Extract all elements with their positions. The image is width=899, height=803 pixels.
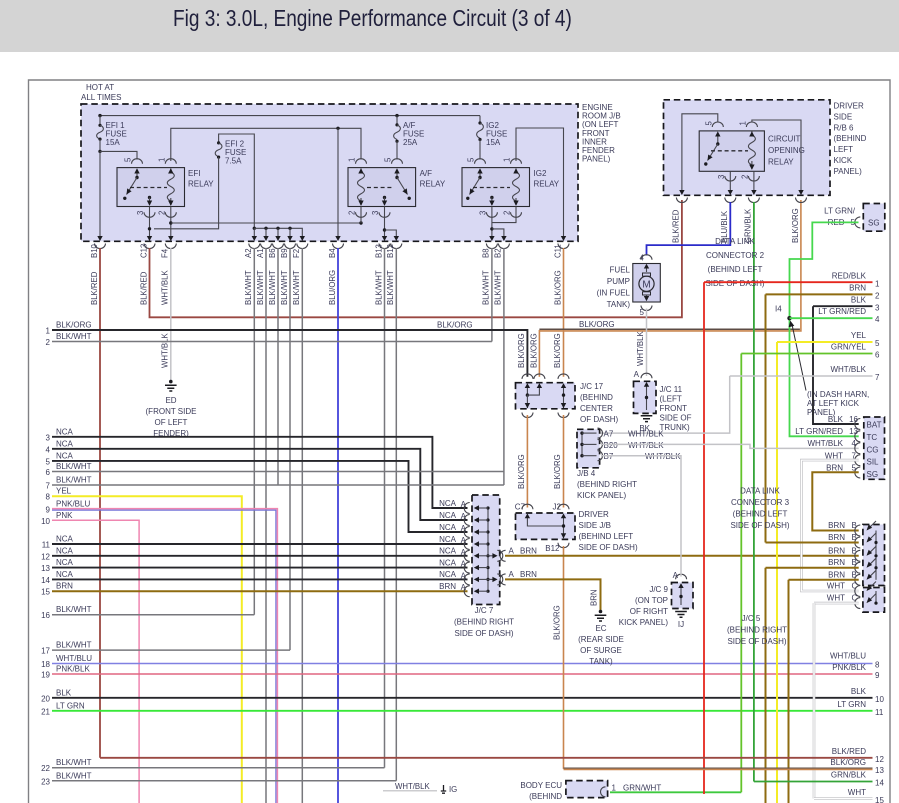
svg-text:8: 8 xyxy=(875,661,880,670)
svg-text:BLK: BLK xyxy=(828,415,844,424)
node pin 7 left BLK/WHT xyxy=(46,476,504,491)
svg-text:SG: SG xyxy=(868,219,880,228)
ground BK below J/C 11 xyxy=(639,416,652,433)
svg-text:SIDE OF DASH): SIDE OF DASH) xyxy=(454,629,513,638)
svg-text:C: C xyxy=(852,594,858,603)
node right pin 12 BLK/RED xyxy=(100,747,884,764)
wire BLK/RED B10 down to right pin 12 xyxy=(99,248,101,758)
svg-text:WHT/BLK: WHT/BLK xyxy=(830,365,866,374)
node right pin 1 RED/BLK xyxy=(704,272,880,289)
svg-text:NCA: NCA xyxy=(56,451,74,460)
svg-text:BLK/WHT: BLK/WHT xyxy=(56,476,92,485)
svg-text:RELAY: RELAY xyxy=(768,158,794,167)
svg-text:C7: C7 xyxy=(515,503,526,512)
wire A/F pin3 to B13 B12 exits xyxy=(383,207,397,237)
svg-text:EFI: EFI xyxy=(188,169,200,178)
svg-text:BLK/WHT: BLK/WHT xyxy=(268,270,277,305)
svg-text:1: 1 xyxy=(738,121,747,125)
svg-text:F4: F4 xyxy=(161,248,170,258)
svg-text:YEL: YEL xyxy=(851,331,867,340)
relay circuit opening xyxy=(699,121,805,182)
svg-text:B: B xyxy=(852,558,857,567)
svg-text:CONNECTOR 3: CONNECTOR 3 xyxy=(731,498,790,507)
relay EFI xyxy=(117,157,214,217)
connector pin A1 xyxy=(256,236,272,305)
svg-text:3: 3 xyxy=(136,211,145,215)
wire R/B6 internal relay pin1 to BLK/ORG exit xyxy=(752,120,801,191)
wire WHT DLC3 SIL to J/C5 WHT row1 xyxy=(801,460,858,591)
svg-text:6: 6 xyxy=(46,468,51,477)
label J/C 5 xyxy=(727,614,787,646)
svg-text:DATA LINK: DATA LINK xyxy=(715,237,755,246)
svg-text:B13: B13 xyxy=(374,244,383,258)
J/C 5 WHT row1 xyxy=(827,582,876,597)
svg-text:NCA: NCA xyxy=(439,511,457,520)
svg-text:(BEHIND LEFT: (BEHIND LEFT xyxy=(733,510,788,519)
wire GRN/BLK R/B6 down to right pin 14 xyxy=(753,202,755,782)
svg-text:SIDE: SIDE xyxy=(834,112,853,121)
J/C 5 row3 BRN xyxy=(828,546,876,561)
svg-text:BRN: BRN xyxy=(828,546,845,555)
svg-text:16: 16 xyxy=(41,611,50,620)
svg-text:B20: B20 xyxy=(604,441,619,450)
wire BLK/WHT B2 down to pin 7 xyxy=(503,248,505,485)
svg-text:7: 7 xyxy=(875,373,880,382)
node pin 18 left WHT/BLU full line to right pin 8 xyxy=(41,652,880,670)
driver side R/B 6 block xyxy=(664,100,867,196)
wire GRN/WHT body ECU to GRN/YEL column xyxy=(610,791,741,793)
wire BRN J/C7 row5 to J/C5 row3 xyxy=(505,555,859,557)
data link connector 3 xyxy=(730,415,884,530)
svg-text:2: 2 xyxy=(46,338,51,347)
fuel pump xyxy=(597,254,661,318)
junction driver side J/B xyxy=(515,503,638,554)
svg-text:J/C 9: J/C 9 xyxy=(649,585,668,594)
svg-text:GRN/BLK: GRN/BLK xyxy=(831,771,867,780)
svg-text:DRIVER: DRIVER xyxy=(579,510,609,519)
svg-text:(BEHIND LEFT: (BEHIND LEFT xyxy=(579,532,634,541)
wire YEL pin5 down off page xyxy=(776,342,778,803)
svg-text:BRN: BRN xyxy=(828,558,845,567)
svg-text:BLU/ORG: BLU/ORG xyxy=(328,270,337,305)
node pin 9 left PNK/BLU xyxy=(46,500,278,803)
svg-text:5: 5 xyxy=(852,464,857,473)
svg-text:(BEHIND: (BEHIND xyxy=(834,134,867,143)
data link connector 2 xyxy=(705,204,884,289)
svg-text:9: 9 xyxy=(46,506,51,515)
wire EFI pin3 to C13 exit and EFI2 fuse xyxy=(148,207,151,237)
wire BLK/WHT A1 down off page xyxy=(265,248,267,803)
svg-text:WHT: WHT xyxy=(827,594,845,603)
connector pin A2 xyxy=(244,236,260,305)
svg-text:BLK/ORG: BLK/ORG xyxy=(437,321,473,330)
svg-text:BLK/WHT: BLK/WHT xyxy=(56,332,92,341)
svg-text:BLK/ORG: BLK/ORG xyxy=(830,758,866,767)
svg-text:12: 12 xyxy=(875,755,884,764)
svg-text:J/C 7: J/C 7 xyxy=(475,606,494,615)
svg-text:5: 5 xyxy=(384,157,393,162)
svg-text:1: 1 xyxy=(875,280,880,289)
svg-text:DRIVER: DRIVER xyxy=(834,102,864,111)
svg-text:OPENING: OPENING xyxy=(768,146,805,155)
svg-text:18: 18 xyxy=(41,660,50,669)
node pin 2 left BLK/WHT xyxy=(46,332,492,347)
connector exit BLU/BLK at R/B6 xyxy=(720,190,736,243)
wire BLU/ORG B4 down off page xyxy=(337,248,339,803)
svg-text:3: 3 xyxy=(371,211,380,215)
wire EFI1 fuse to EFI relay pin5 xyxy=(98,150,137,160)
junction J/C 17 xyxy=(516,374,619,424)
svg-text:AT LEFT KICK: AT LEFT KICK xyxy=(807,399,860,408)
wire R/B6 internal BLK/RED feed to relay pin5 xyxy=(682,114,718,191)
svg-text:F2: F2 xyxy=(292,249,301,258)
stub WHT/BLK IG cut off at bottom xyxy=(383,782,457,794)
svg-text:LT GRN/RED: LT GRN/RED xyxy=(818,307,866,316)
wire WHT/BLK J/B4 B7 to J/C9 xyxy=(601,456,681,577)
wire IG2 pin2 to pin3 column xyxy=(492,207,516,223)
svg-text:15A: 15A xyxy=(486,138,501,147)
svg-text:BLK: BLK xyxy=(56,688,72,697)
wire BLK/WHT B8 down to pin 2 xyxy=(491,248,493,342)
wire BLK/ORG J/C17 pin3 down to driver side J/B J2 xyxy=(553,415,564,508)
svg-text:4: 4 xyxy=(875,315,880,324)
svg-text:BLK/WHT: BLK/WHT xyxy=(56,605,92,614)
connector pin B10 xyxy=(90,236,106,305)
svg-text:OF DASH): OF DASH) xyxy=(580,415,619,424)
svg-text:NCA: NCA xyxy=(439,570,457,579)
node pin 11 left NCA xyxy=(42,535,468,550)
svg-text:3: 3 xyxy=(875,303,880,312)
svg-text:9: 9 xyxy=(875,671,880,680)
svg-text:20: 20 xyxy=(41,694,50,703)
wire BLK/WHT B9 down to pin 17 xyxy=(289,248,291,650)
connector pin B13 xyxy=(374,236,390,305)
svg-text:SIDE OF: SIDE OF xyxy=(660,414,692,423)
svg-text:J2: J2 xyxy=(553,503,562,512)
svg-text:BLK/WHT: BLK/WHT xyxy=(494,270,503,305)
wire BRN DLC3 SG to J/C5 row1 xyxy=(812,472,858,530)
svg-text:C11: C11 xyxy=(553,244,562,258)
connector exit BLK/RED at R/B6 xyxy=(672,190,688,243)
connector pin C11 xyxy=(553,236,569,305)
svg-text:6: 6 xyxy=(875,351,880,360)
wire BLU/BLK R/B6 to fuel pump pin4 xyxy=(647,202,731,256)
J/C 5 row4 BRN xyxy=(766,558,877,573)
svg-text:WHT: WHT xyxy=(827,582,845,591)
wire EFI pin2 to F4 exit and coil return bus xyxy=(169,207,363,237)
svg-text:BRN: BRN xyxy=(520,547,537,556)
svg-text:2: 2 xyxy=(875,292,880,301)
svg-text:5: 5 xyxy=(467,157,476,162)
callout arrow IN DASH HARN xyxy=(789,321,870,417)
svg-text:LT GRN/: LT GRN/ xyxy=(824,207,856,216)
wire BRN J/C5 row4 down off page xyxy=(765,568,767,803)
node pin 21 left LT GRN full line to right pin 11 xyxy=(41,700,884,717)
svg-text:BLK/WHT: BLK/WHT xyxy=(56,462,92,471)
svg-text:FUEL: FUEL xyxy=(610,266,631,275)
svg-text:BLK/WHT: BLK/WHT xyxy=(56,771,92,780)
svg-text:3: 3 xyxy=(717,175,726,179)
svg-text:BLK/ORG: BLK/ORG xyxy=(529,333,538,368)
node pin 15 left BRN xyxy=(41,582,467,597)
wire RED/BLK down off page xyxy=(703,282,705,794)
node right pin 2 BRN xyxy=(766,284,881,301)
svg-text:WHT/BLK: WHT/BLK xyxy=(807,439,843,448)
J/C 7 right exit row 7 xyxy=(488,570,537,585)
svg-text:2: 2 xyxy=(740,175,749,179)
svg-text:BRN: BRN xyxy=(56,582,73,591)
svg-text:(ON TOP: (ON TOP xyxy=(635,596,668,605)
svg-text:12: 12 xyxy=(41,552,50,561)
svg-text:B7: B7 xyxy=(604,452,614,461)
svg-text:BLK/WHT: BLK/WHT xyxy=(482,270,491,305)
svg-text:(BEHIND: (BEHIND xyxy=(580,393,613,402)
wire BRN J/C7 row7 to EC ground xyxy=(505,579,601,610)
svg-text:BRN: BRN xyxy=(826,464,843,473)
svg-text:LEFT: LEFT xyxy=(834,145,854,154)
J/C 7 right exit row 5 xyxy=(488,547,537,562)
wire top bus xyxy=(98,114,480,117)
wire WHT/BLK pin7 to J/B4 A7 xyxy=(600,376,730,433)
svg-text:10: 10 xyxy=(41,517,50,526)
svg-text:2: 2 xyxy=(348,211,357,215)
svg-text:SIDE OF DASH): SIDE OF DASH) xyxy=(705,279,764,288)
svg-text:BLK: BLK xyxy=(851,687,867,696)
svg-text:22: 22 xyxy=(41,764,50,773)
svg-text:17: 17 xyxy=(41,647,50,656)
svg-text:(FRONT SIDE: (FRONT SIDE xyxy=(146,407,197,416)
svg-text:3: 3 xyxy=(478,211,487,215)
connector pin B9 xyxy=(280,236,296,305)
wire BLK/ORG J/C17 pin1 down to driver side J/B C7 xyxy=(517,415,527,508)
svg-text:WHT: WHT xyxy=(848,788,866,797)
wire R/B6 internal relay pin3 pin2 to exits xyxy=(730,171,754,190)
svg-text:BRN: BRN xyxy=(828,521,845,530)
svg-text:NCA: NCA xyxy=(56,570,74,579)
wire BLK/ORG J/C17 pin2 to R/B6 xyxy=(529,200,801,377)
svg-text:7: 7 xyxy=(46,482,51,491)
svg-text:BLK/WHT: BLK/WHT xyxy=(244,270,253,305)
svg-text:BLK/ORG: BLK/ORG xyxy=(56,321,92,330)
wire WHT J/C5 row2 down to right pin 15 xyxy=(813,603,816,798)
svg-text:(IN FUEL: (IN FUEL xyxy=(597,289,631,298)
svg-text:BLK/RED: BLK/RED xyxy=(672,209,681,243)
svg-text:A2: A2 xyxy=(244,248,253,258)
svg-text:BLK/WHT: BLK/WHT xyxy=(292,270,301,305)
wire EFI2 fuse distribution bus to A2 A1 B6 B9 F2 xyxy=(253,227,303,237)
node pin 16 left BLK/WHT xyxy=(41,605,254,620)
connector pin F4 xyxy=(161,236,177,305)
svg-text:5: 5 xyxy=(124,157,133,162)
J/C 5 row1 BRN xyxy=(828,521,876,536)
svg-text:IG2: IG2 xyxy=(534,169,547,178)
svg-text:A1: A1 xyxy=(256,248,265,258)
svg-text:NCA: NCA xyxy=(439,547,457,556)
wire EFI1 fuse to B10 exit xyxy=(99,151,101,236)
svg-text:B: B xyxy=(852,570,857,579)
wire EFI pin1 coil feed bus to A/F pin1 xyxy=(171,127,361,161)
svg-text:BLK/WHT: BLK/WHT xyxy=(256,270,265,305)
connector pin B12 xyxy=(386,236,402,305)
junction J/C 5 xyxy=(863,525,885,613)
svg-text:PNK/BLK: PNK/BLK xyxy=(56,665,90,674)
svg-text:1: 1 xyxy=(46,327,51,336)
wire BLK/ORG B12 down to right pin 13 xyxy=(553,546,564,769)
svg-text:PUMP: PUMP xyxy=(607,277,630,286)
node pin 20 left BLK full line to right pin 10 xyxy=(41,687,884,704)
node pin 3 left NCA xyxy=(46,427,468,508)
junction block J/B 4 xyxy=(577,428,681,500)
svg-text:BRN: BRN xyxy=(849,284,866,293)
svg-text:IJ: IJ xyxy=(678,620,684,629)
svg-text:BLK/ORG: BLK/ORG xyxy=(517,333,526,368)
svg-text:BLK/ORG: BLK/ORG xyxy=(553,270,562,305)
connector pin B6 xyxy=(268,236,284,305)
engine room J/B block xyxy=(81,83,621,241)
connector pin B8 xyxy=(482,236,498,305)
ground EC xyxy=(578,610,624,666)
svg-text:B: B xyxy=(852,521,857,530)
svg-text:NCA: NCA xyxy=(56,427,74,436)
ground ED xyxy=(146,380,197,438)
svg-text:BODY ECU: BODY ECU xyxy=(520,781,562,790)
J/C 5 WHT row2 xyxy=(814,594,876,609)
svg-text:4: 4 xyxy=(852,439,857,448)
connector pin B2 xyxy=(494,236,510,305)
wire A/F pin2 to return bus xyxy=(360,207,362,224)
junction J/C 7 xyxy=(472,495,500,605)
svg-text:BRN: BRN xyxy=(828,570,845,579)
svg-text:NCA: NCA xyxy=(439,499,457,508)
svg-text:BLK/ORG: BLK/ORG xyxy=(553,605,562,640)
svg-text:RED/BLK: RED/BLK xyxy=(832,272,867,281)
svg-text:2: 2 xyxy=(503,211,512,215)
wire B4 branch xyxy=(337,128,339,236)
svg-text:7.5A: 7.5A xyxy=(225,157,242,166)
svg-text:BLK/ORG: BLK/ORG xyxy=(553,454,562,489)
wire BRN pin2 down to J/C5 row2 xyxy=(765,294,767,542)
wire IG2 pin3 to B8 B2 exits xyxy=(490,207,504,237)
svg-text:WHT/BLK: WHT/BLK xyxy=(645,452,681,461)
svg-text:TANK): TANK) xyxy=(589,657,613,666)
wire BLK/WHT F2 down off page xyxy=(301,248,303,803)
svg-text:SIDE OF DASH): SIDE OF DASH) xyxy=(727,637,786,646)
svg-text:WHT/BLK: WHT/BLK xyxy=(161,270,170,305)
svg-text:13: 13 xyxy=(875,766,884,775)
svg-text:I4: I4 xyxy=(775,305,782,314)
node right pin 14 GRN/BLK xyxy=(754,771,885,788)
svg-text:BLK/WHT: BLK/WHT xyxy=(280,270,289,305)
svg-text:15: 15 xyxy=(875,796,884,803)
svg-text:BLK/RED: BLK/RED xyxy=(139,271,148,305)
svg-text:OF SURGE: OF SURGE xyxy=(580,646,622,655)
svg-text:(BEHIND RIGHT: (BEHIND RIGHT xyxy=(454,618,514,627)
svg-text:NCA: NCA xyxy=(439,558,457,567)
svg-text:LT GRN: LT GRN xyxy=(56,701,85,710)
svg-text:BLK/WHT: BLK/WHT xyxy=(386,270,395,305)
svg-text:WHT/BLK: WHT/BLK xyxy=(628,441,664,450)
svg-text:(BEHIND RIGHT: (BEHIND RIGHT xyxy=(577,480,637,489)
svg-text:25A: 25A xyxy=(403,138,418,147)
svg-text:B: B xyxy=(852,533,857,542)
fuse EFI1 15A xyxy=(97,116,127,152)
node pin 8 left YEL xyxy=(46,487,242,803)
svg-text:A: A xyxy=(509,570,515,579)
svg-text:DATA LINK: DATA LINK xyxy=(740,487,780,496)
svg-text:NCA: NCA xyxy=(56,439,74,448)
svg-text:11: 11 xyxy=(875,708,884,717)
svg-text:WHT/BLK: WHT/BLK xyxy=(395,782,430,791)
svg-text:J/B 4: J/B 4 xyxy=(577,469,596,478)
svg-text:BLK/ORG: BLK/ORG xyxy=(517,454,526,489)
wire IG2 pin1 to C11 exit xyxy=(516,128,564,237)
svg-text:RELAY: RELAY xyxy=(420,180,446,189)
svg-text:ALL TIMES: ALL TIMES xyxy=(81,93,121,102)
svg-text:SG: SG xyxy=(867,470,879,479)
svg-text:B9: B9 xyxy=(280,248,289,258)
body ECU connector xyxy=(520,781,661,801)
node I4 splice xyxy=(775,305,792,321)
svg-text:13: 13 xyxy=(849,427,858,436)
svg-text:YEL: YEL xyxy=(56,487,72,496)
svg-text:NCA: NCA xyxy=(439,535,457,544)
svg-text:BLK/ORG: BLK/ORG xyxy=(553,333,562,368)
svg-text:M: M xyxy=(642,280,650,291)
svg-text:2: 2 xyxy=(157,211,166,215)
svg-text:SIL: SIL xyxy=(867,458,880,467)
svg-text:(BEHIND: (BEHIND xyxy=(529,792,562,801)
svg-text:OF LEFT: OF LEFT xyxy=(155,418,188,427)
svg-text:5: 5 xyxy=(46,457,51,466)
svg-text:CONNECTOR 2: CONNECTOR 2 xyxy=(706,251,765,260)
connector pin B4 xyxy=(328,236,344,305)
svg-text:ED: ED xyxy=(165,396,176,405)
svg-text:BRN: BRN xyxy=(590,590,599,606)
svg-text:CIRCUIT: CIRCUIT xyxy=(768,135,801,144)
svg-text:EC: EC xyxy=(595,624,606,633)
wire BLK pin3 to DLC3 BAT xyxy=(813,306,859,424)
node right pin 13 BLK/ORG xyxy=(564,758,885,775)
svg-text:WHT/BLU: WHT/BLU xyxy=(830,652,866,661)
svg-text:SIDE J/B: SIDE J/B xyxy=(579,521,611,530)
svg-text:PNK/BLK: PNK/BLK xyxy=(832,663,866,672)
svg-text:14: 14 xyxy=(875,779,884,788)
svg-text:BLK/WHT: BLK/WHT xyxy=(56,641,92,650)
node pin 13 left NCA xyxy=(41,558,467,573)
svg-text:(IN DASH HARN,: (IN DASH HARN, xyxy=(807,390,869,399)
node pin 5 left NCA xyxy=(46,451,468,532)
wire LT GRN/RED DLC2 to I4 and DLC3 TC xyxy=(790,222,859,436)
svg-text:NCA: NCA xyxy=(56,546,74,555)
svg-text:1: 1 xyxy=(503,158,512,162)
svg-text:B8: B8 xyxy=(482,248,491,258)
svg-text:B: B xyxy=(852,546,857,555)
svg-text:PANEL): PANEL) xyxy=(582,155,611,164)
svg-text:16: 16 xyxy=(849,415,858,424)
svg-text:A/F: A/F xyxy=(420,169,433,178)
svg-text:FRONT: FRONT xyxy=(660,404,688,413)
svg-text:WHT/BLK: WHT/BLK xyxy=(636,331,645,366)
svg-text:J/C 5: J/C 5 xyxy=(742,614,761,623)
svg-text:NCA: NCA xyxy=(56,558,74,567)
svg-text:BLK/ORG: BLK/ORG xyxy=(579,320,615,329)
svg-text:3: 3 xyxy=(46,433,51,442)
node right pin 4 LT GRN/RED xyxy=(790,307,881,324)
svg-text:B6: B6 xyxy=(268,248,277,258)
svg-text:BLK/WHT: BLK/WHT xyxy=(374,270,383,305)
svg-text:B4: B4 xyxy=(328,248,337,258)
svg-text:WHT/BLK: WHT/BLK xyxy=(628,430,664,439)
